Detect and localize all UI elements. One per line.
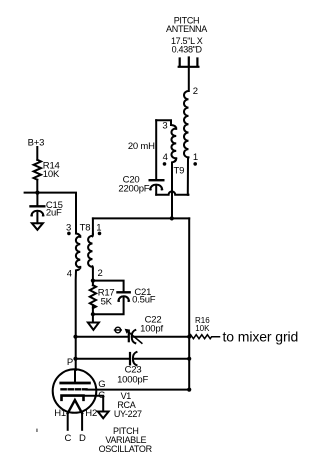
svg-text:100pf: 100pf [140,324,163,335]
resistor R16 [189,335,219,339]
inductor T9 antenna winding (pins 2-1) [184,91,189,157]
svg-text:C: C [65,433,72,444]
wire T9 pin1 lead down to rail [187,194,189,196]
svg-text:10K: 10K [195,324,210,333]
wire C21 bottom branch [93,298,124,314]
junction dot R17 bottom [91,312,95,316]
svg-text:4: 4 [163,152,168,163]
svg-text:2: 2 [193,86,198,97]
wire T9 pin4 bottom lead through crossover [172,159,176,219]
wire plate lead [74,370,76,382]
wire T8 pin4 lead down to tube plate [75,271,77,371]
tube heater filament [68,400,82,413]
ground cathode [98,412,109,419]
junction dot R17 top [91,279,95,283]
node C20 label [118,175,149,195]
svg-text:G: G [98,379,105,390]
svg-text:T8: T8 [80,223,91,234]
node R16 label [195,316,210,333]
wire T8 pin2 lead [92,269,94,281]
svg-text:20 mH: 20 mH [128,141,155,152]
svg-text:OSCILLATOR: OSCILLATOR [99,444,153,454]
ground C15 [32,223,43,230]
node R14 label [43,161,60,181]
svg-text:H2: H2 [85,408,97,419]
wire C15 top lead [36,193,38,206]
node C22 label [140,315,163,335]
wire C15 bottom lead [36,213,38,224]
node PITCH ANTENNA label [166,16,207,55]
wire after C22 [134,336,190,338]
trimmer screw symbol [115,327,121,333]
wire T9 right winding bottom lead [187,157,189,194]
inductor T9 20mH winding (pins 3-4) [171,125,176,158]
svg-text:3: 3 [162,121,167,132]
junction dot at 171.7,218.4 [170,216,174,220]
capacitor C20 [150,179,164,181]
wire H2 lead [81,413,83,430]
svg-text:5K: 5K [101,297,113,308]
node PITCH VARIABLE OSCILLATOR label [99,426,153,454]
trimmer arrow C22 [127,331,142,343]
node C15 label [46,200,63,219]
node T8 labels [66,223,102,280]
junction pin 4 dot [163,162,167,166]
antenna symbol [179,58,199,67]
wire B+3 down [36,147,38,160]
wire R17 bottom [92,305,94,322]
svg-text:4: 4 [67,269,72,280]
node R17 label [98,288,115,308]
wire horizontal bus y=218.4 [93,217,189,219]
wire T8 pin1 feed [92,218,94,234]
tube plate bar [61,382,90,385]
svg-text:H1: H1 [54,408,66,419]
svg-text:1000pF: 1000pF [117,375,148,386]
capacitor C23 [129,353,131,364]
wire C23 right [135,358,189,360]
svg-text:2200pF: 2200pF [118,183,149,194]
wire B+ horizontal [25,193,76,234]
svg-text:2: 2 [97,268,102,279]
resistor R17 [90,285,96,308]
resistor R14 [34,160,41,180]
wire R17 top [92,281,94,286]
svg-text:10K: 10K [43,169,60,180]
svg-text:2uF: 2uF [46,207,62,218]
wire C20 bottom lead [155,187,157,195]
tube cathode [62,396,84,400]
stray mark [36,429,37,432]
inductor T8 left winding (pins 3-4) [76,234,80,271]
wire grid lead to bus [87,389,190,391]
junction pin 1 dot [193,162,197,166]
capacitor C21 [118,291,130,293]
wire T9 pin3 top lead [156,120,171,125]
tube grid dashed [62,388,87,390]
wire C23 branch left [76,358,129,360]
wire right bus vertical [188,218,190,389]
node V1 tube label [114,391,142,419]
node C23 label [117,365,148,386]
inductor T8 right winding (pins 1-2) [88,234,93,268]
svg-text:to mixer grid: to mixer grid [223,328,299,344]
ground R17 [88,323,99,330]
junction dot bus/C23 [187,357,191,361]
junction T8 pin1 dot [98,232,102,236]
junction dot plate/C23 [73,357,77,361]
svg-text:D: D [79,433,86,444]
svg-text:UY-227: UY-227 [114,409,142,419]
wire H1 lead [67,413,69,430]
svg-text:C: C [98,390,105,401]
junction T8 pin3 dot [67,232,71,236]
svg-text:0.5uF: 0.5uF [132,295,156,306]
svg-text:B+3: B+3 [28,137,45,148]
wire T9 left line to C20 [155,120,157,179]
capacitor C15 [31,205,45,207]
wire main line C22 level [76,336,128,338]
capacitor C22 variable [128,331,130,342]
wire C21 top branch [93,281,124,292]
junction dot R14/C15 [35,191,39,195]
wire cathode lead [84,396,104,412]
node C21 label [132,287,156,306]
svg-text:ANTENNA: ANTENNA [166,24,207,34]
wire T9 bottom rail with crossover hump [156,191,188,194]
wire antenna stem [188,67,190,91]
svg-text:T9: T9 [174,166,185,177]
svg-text:0.438"D: 0.438"D [172,45,203,55]
svg-text:P: P [67,357,73,368]
tube V1 envelope [53,369,97,413]
junction dot plate/C22 [73,335,77,339]
junction dot bus/R16 [187,335,191,339]
wire R14 to junction [36,180,38,193]
svg-text:1: 1 [193,152,198,163]
junction dot grid/bus [187,388,191,392]
